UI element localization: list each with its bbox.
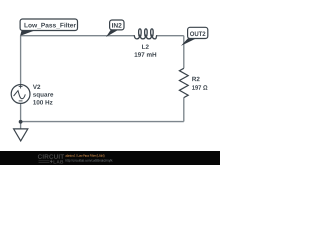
wire right vertical upper <box>183 36 185 69</box>
footer bar <box>0 151 220 165</box>
footer url text <box>66 159 113 162</box>
wire left vertical lower <box>20 103 22 121</box>
resistor R2 <box>179 68 188 97</box>
wire top horizontal <box>21 35 184 37</box>
value 100 Hz <box>33 100 52 104</box>
wire bottom horizontal <box>21 121 184 123</box>
wire left vertical <box>20 36 22 85</box>
label L2 <box>142 45 149 49</box>
wire right vertical lower <box>183 98 185 122</box>
flag Low_Pass_Filter <box>20 19 77 36</box>
flag OUT2 <box>181 27 208 46</box>
junction dot <box>19 120 23 124</box>
voltage source V2 <box>11 85 30 104</box>
label V2 <box>33 85 40 89</box>
value square <box>33 93 53 98</box>
ground <box>14 129 28 141</box>
value 197 mH <box>135 52 157 56</box>
value 197 Ohm <box>192 85 207 89</box>
inductor L2 <box>134 29 156 39</box>
flag IN2 <box>106 20 124 37</box>
wire ground stem <box>20 122 22 129</box>
label R2 <box>192 77 199 81</box>
footer credit text <box>66 154 105 157</box>
footer logo CIRCUIT LAB <box>38 154 64 159</box>
